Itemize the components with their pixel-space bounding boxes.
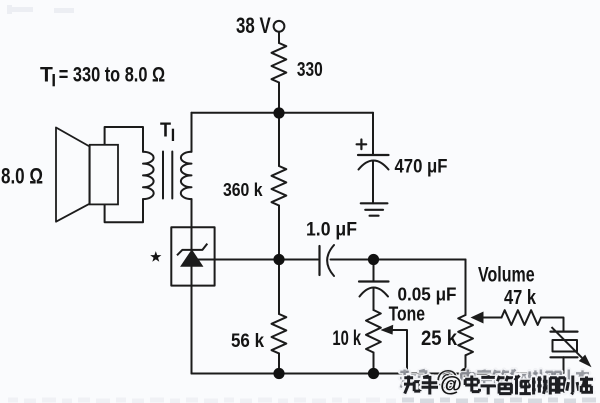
- wire 0.05uF drop: [373, 265, 375, 281]
- crystal cartridge plates: [551, 331, 578, 333]
- node B mid-left: [273, 254, 284, 265]
- svg-text:47 k: 47 k: [504, 287, 537, 309]
- wire left column down: [191, 113, 193, 152]
- zener box U1: [171, 227, 214, 285]
- wire 47k to crystal: [541, 318, 564, 332]
- speaker horn: [56, 128, 89, 222]
- pot 10k wiper: [384, 330, 408, 374]
- resistor 360k: [272, 166, 287, 206]
- ground: [361, 202, 388, 204]
- transformer T1 secondary coil: [181, 152, 192, 199]
- svg-text:= 330 to 8.0 Ω: = 330 to 8.0 Ω: [59, 63, 165, 86]
- svg-text:Tone: Tone: [389, 304, 425, 326]
- transformer core: [163, 152, 172, 199]
- svg-text:T: T: [40, 63, 53, 86]
- zener triangle: [181, 250, 203, 266]
- zener bar: [177, 244, 207, 256]
- wire 38V to R330: [278, 32, 280, 43]
- node A top: [273, 107, 284, 118]
- node D rail1: [273, 368, 284, 379]
- watermark zhihu: [400, 367, 589, 391]
- svg-text:25 k: 25 k: [421, 327, 457, 350]
- terminal 38V: [274, 21, 285, 32]
- svg-text:T: T: [160, 120, 171, 142]
- potentiometer 25k body: [458, 315, 473, 355]
- zener diode in box: [177, 244, 207, 256]
- svg-text:360 k: 360 k: [223, 180, 263, 200]
- label asterisk: [150, 251, 161, 262]
- wire mid bus right: [331, 259, 466, 261]
- svg-text:330: 330: [297, 59, 323, 81]
- svg-text:470 μF: 470 μF: [395, 156, 448, 178]
- svg-text:8.0 Ω: 8.0 Ω: [1, 164, 43, 189]
- node C mid-right: [368, 254, 379, 265]
- arrowhead volume wiper: [471, 312, 484, 324]
- resistor 330: [272, 43, 287, 83]
- bottom rail: [192, 373, 564, 375]
- capacitor 0.05uF: [359, 280, 389, 282]
- wire mid bus left: [196, 259, 318, 261]
- wire 25k drop: [465, 260, 467, 316]
- wire zener out: [192, 259, 197, 261]
- transformer T1 primary coil: [143, 152, 154, 199]
- wire 56k top: [278, 260, 280, 315]
- svg-text:1.0 μF: 1.0 μF: [306, 219, 357, 241]
- potentiometer 10k body: [366, 310, 381, 353]
- wire node to R360k: [278, 113, 280, 166]
- capacitor C 470uF: [358, 154, 389, 156]
- svg-text:@: @: [440, 373, 462, 397]
- svg-text:Volume: Volume: [478, 264, 535, 287]
- arrowhead tone pot: [381, 325, 394, 335]
- capacitor 1.0uF: [318, 246, 320, 275]
- svg-text:10 k: 10 k: [332, 327, 361, 350]
- node E rail2: [368, 368, 379, 379]
- node F rail3: [460, 368, 471, 379]
- resistor 47k: [502, 310, 542, 325]
- pot 25k wiper wire: [481, 317, 502, 319]
- crystal arrow: [552, 327, 592, 367]
- wire R360k to mid bus: [278, 206, 280, 260]
- speaker driver rect: [90, 145, 118, 205]
- svg-text:38 V: 38 V: [236, 13, 271, 38]
- wire top bus: [192, 112, 374, 114]
- svg-text:0.05 μF: 0.05 μF: [398, 284, 457, 304]
- resistor 56k: [272, 314, 287, 353]
- plus sign: [357, 140, 367, 150]
- wire 470uF drop: [372, 113, 374, 154]
- svg-text:56 k: 56 k: [231, 331, 264, 352]
- speaker loop wires: [105, 127, 143, 152]
- wire R330 to node: [278, 83, 280, 113]
